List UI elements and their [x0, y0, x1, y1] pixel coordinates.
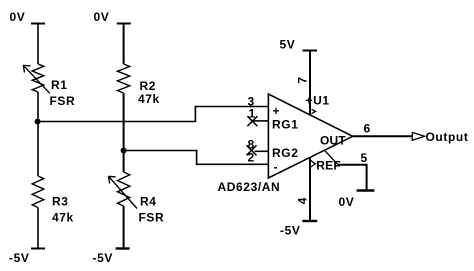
- wire stub pin 8 (RG2, unconnected): [255, 150, 269, 152]
- svg-text:RG2: RG2: [272, 146, 298, 160]
- node junction dot (R2/R4): [121, 148, 127, 154]
- variable-resistor arrow of R4: [109, 176, 138, 208]
- svg-text:R4: R4: [140, 195, 157, 209]
- resistor R1: [32, 64, 44, 92]
- resistor R2: [117, 64, 129, 93]
- wire (R2 to R4 through node): [123, 93, 125, 172]
- pin 7 chevron: [312, 109, 316, 113]
- svg-text:0V: 0V: [339, 195, 355, 209]
- svg-text:FSR: FSR: [139, 211, 165, 225]
- wire (node R2/R4 to pin 2, with step): [124, 151, 269, 165]
- svg-text:R1: R1: [51, 78, 68, 92]
- supply 0V rail (second column): [117, 23, 131, 25]
- wire REF diagonal stub: [325, 151, 337, 164]
- wire (R4 to -5V rail): [123, 206, 125, 249]
- svg-text:4: 4: [296, 197, 310, 204]
- svg-text:0V: 0V: [94, 10, 110, 24]
- resistor R4: [117, 172, 129, 206]
- svg-text:47k: 47k: [138, 92, 160, 106]
- svg-text:5: 5: [361, 151, 368, 165]
- svg-text:-5V: -5V: [93, 251, 113, 265]
- variable-resistor arrow of R1: [23, 65, 50, 93]
- no-connect X on pin 8: [247, 145, 257, 155]
- wire (5V rail to pin 7): [309, 51, 311, 116]
- op-amp U1 triangle body: [268, 94, 352, 178]
- REF pin chevron: [311, 161, 316, 168]
- svg-text:0V: 0V: [10, 10, 26, 24]
- svg-text:OUT: OUT: [320, 134, 346, 148]
- svg-text:-5V: -5V: [280, 224, 300, 238]
- svg-text:Output: Output: [426, 130, 469, 144]
- wire (R1 to R3 through node): [37, 92, 39, 176]
- wire (0V rail to R2): [123, 24, 125, 65]
- wire (pin 4 to -5V rail): [309, 158, 311, 222]
- svg-text:-5V: -5V: [9, 251, 29, 265]
- supply 5V rail (pin 7): [303, 50, 318, 52]
- svg-text:RG1: RG1: [272, 118, 298, 132]
- supply -5V rail (pin 4): [302, 220, 317, 222]
- supply -5V rail (left column): [31, 248, 45, 250]
- wire (output, pin 6): [353, 135, 412, 137]
- supply 0V rail (REF): [357, 189, 375, 191]
- svg-text:-: -: [274, 160, 279, 174]
- svg-text:5V: 5V: [280, 38, 296, 52]
- supply -5V rail (second column): [116, 247, 130, 249]
- no-connect X on pin 1: [247, 116, 257, 126]
- svg-text:R2: R2: [140, 79, 157, 93]
- wire (node R1/R3 to pin 3, with step): [38, 107, 269, 122]
- svg-text:47k: 47k: [52, 211, 74, 225]
- output port arrow: [412, 132, 424, 140]
- svg-text:AD623/AN: AD623/AN: [218, 180, 281, 194]
- wire stub pin 1 (RG1, unconnected): [253, 120, 269, 122]
- wire (0V rail to R1): [37, 24, 39, 65]
- supply 0V rail (left column): [31, 23, 45, 25]
- svg-text:6: 6: [364, 122, 371, 136]
- svg-text:+: +: [273, 104, 281, 118]
- svg-text:R3: R3: [52, 195, 69, 209]
- node junction dot (R1/R3): [35, 119, 41, 125]
- svg-text:FSR: FSR: [50, 94, 76, 108]
- wire (REF to 0V ground): [337, 165, 367, 191]
- svg-text:7: 7: [296, 76, 310, 83]
- wire (R3 to -5V rail): [37, 208, 39, 249]
- resistor R3: [32, 176, 44, 208]
- svg-text:2: 2: [248, 150, 255, 164]
